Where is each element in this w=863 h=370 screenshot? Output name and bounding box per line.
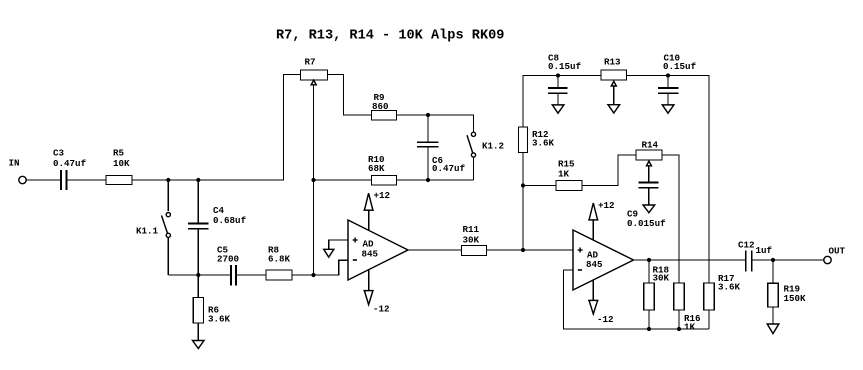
svg-text:845: 845: [586, 259, 603, 270]
svg-text:0.15uf: 0.15uf: [663, 61, 697, 72]
capacitor C6: [417, 115, 439, 180]
svg-text:+12: +12: [374, 190, 391, 201]
power +12 op-amp U1: [363, 193, 373, 230]
svg-text:68K: 68K: [368, 163, 385, 174]
resistor R10: [372, 176, 397, 186]
potentiometer R14: [636, 150, 662, 160]
potentiometer R7 wiper: [311, 80, 316, 85]
resistor R17: [704, 283, 714, 329]
wire: [132, 75, 301, 181]
wire: [523, 76, 601, 128]
junction: [771, 258, 775, 262]
wire: [487, 249, 574, 251]
svg-text:IN: IN: [9, 158, 20, 169]
wire: [397, 115, 474, 132]
svg-text:K1.1: K1.1: [136, 226, 159, 237]
wire: [627, 76, 710, 284]
resistor R11: [462, 246, 487, 256]
capacitor C3: [61, 170, 67, 190]
svg-text:R14: R14: [642, 139, 659, 150]
wire: [329, 240, 348, 249]
wire: [662, 155, 679, 283]
svg-text:6.8K: 6.8K: [268, 253, 291, 264]
capacitor C8: [548, 76, 568, 105]
wire: [564, 270, 710, 329]
junction: [521, 183, 525, 187]
svg-text:845: 845: [362, 249, 379, 260]
svg-text:3.6K: 3.6K: [532, 137, 555, 148]
svg-text:1K: 1K: [684, 322, 696, 333]
op-amp U2 plus pin: [578, 248, 583, 253]
junction: [311, 178, 315, 182]
wire: [67, 179, 107, 181]
op-amp U2 minus pin: [578, 269, 582, 271]
wire: [292, 260, 348, 275]
junction: [677, 327, 681, 331]
capacitor C4: [188, 180, 209, 275]
junction: [556, 73, 560, 77]
op-amp U2: [573, 230, 634, 290]
svg-text:K1.2: K1.2: [482, 140, 504, 151]
svg-text:1uf: 1uf: [756, 245, 773, 256]
svg-text:+12: +12: [598, 200, 615, 211]
ground: [662, 105, 674, 113]
junction: [166, 178, 170, 182]
wire: [26, 179, 61, 181]
junction: [311, 273, 315, 277]
potentiometer R14 wiper: [647, 161, 652, 166]
resistor R8: [266, 270, 292, 280]
ground: [324, 249, 334, 257]
svg-text:0.68uf: 0.68uf: [213, 215, 247, 226]
wire: [582, 155, 636, 186]
switch K1.1: [162, 180, 171, 275]
wire: [168, 274, 230, 276]
resistor R18: [644, 260, 654, 329]
potentiometer R13 wiper: [611, 81, 616, 86]
svg-text:3.6K: 3.6K: [718, 281, 741, 292]
svg-text:-12: -12: [597, 314, 614, 325]
svg-text:OUT: OUT: [829, 245, 846, 256]
svg-text:2700: 2700: [217, 253, 239, 264]
ground: [643, 205, 655, 213]
svg-text:0.015uf: 0.015uf: [627, 218, 666, 229]
switch K1.2: [467, 132, 476, 180]
op-amp U1 plus pin: [353, 238, 358, 243]
resistor R5: [106, 176, 132, 185]
svg-text:10K: 10K: [113, 158, 130, 169]
junction: [196, 273, 200, 277]
resistor R9: [372, 111, 397, 121]
svg-text:C12: C12: [738, 239, 755, 250]
wire: [314, 179, 372, 181]
svg-text:150K: 150K: [784, 293, 807, 304]
resistor R19: [768, 260, 778, 324]
power +12 op-amp U2: [588, 203, 598, 240]
wire: [397, 179, 474, 181]
potentiometer R13: [601, 70, 627, 80]
capacitor C10: [658, 76, 679, 105]
resistor R6: [193, 275, 203, 341]
ground: [193, 341, 205, 349]
capacitor C5: [231, 265, 236, 286]
junction: [647, 258, 651, 262]
svg-text:30K: 30K: [653, 272, 670, 283]
ground: [552, 105, 564, 113]
power -12 op-amp U2: [588, 280, 598, 314]
ground: [767, 324, 779, 334]
wire: [408, 249, 462, 251]
svg-text:-12: -12: [373, 303, 390, 314]
resistor R15: [556, 181, 582, 191]
junction: [196, 178, 200, 182]
wire: [613, 86, 615, 105]
resistor R12: [519, 127, 528, 153]
svg-text:30K: 30K: [463, 234, 480, 245]
resistor R16: [674, 283, 684, 329]
svg-text:860: 860: [372, 101, 389, 112]
wire: [328, 75, 372, 116]
wire: [522, 153, 524, 251]
svg-text:0.47uf: 0.47uf: [53, 158, 87, 169]
junction: [666, 73, 670, 77]
svg-text:R11: R11: [463, 224, 480, 235]
junction: [426, 178, 430, 182]
wire: [523, 185, 556, 187]
wire: [313, 85, 315, 275]
svg-text:R7: R7: [305, 57, 316, 68]
wire: [236, 274, 266, 276]
power -12 op-amp U1: [363, 270, 373, 305]
svg-text:1K: 1K: [558, 168, 570, 179]
wire: [634, 259, 746, 261]
svg-text:0.47uf: 0.47uf: [432, 163, 466, 174]
junction: [521, 248, 525, 252]
ground: [608, 105, 620, 113]
wire: [752, 259, 824, 261]
op-amp U1 minus pin: [353, 259, 357, 261]
svg-text:3.6K: 3.6K: [208, 314, 231, 325]
capacitor C12: [746, 251, 752, 272]
svg-text:0.15uf: 0.15uf: [548, 61, 582, 72]
svg-text:R7, R13, R14 - 10K Alps RK09: R7, R13, R14 - 10K Alps RK09: [276, 29, 504, 44]
junction: [647, 327, 651, 331]
svg-text:R13: R13: [604, 56, 621, 67]
potentiometer R7: [301, 70, 328, 80]
junction: [426, 113, 430, 117]
capacitor C9: [639, 166, 659, 205]
op-amp U1: [348, 220, 408, 280]
